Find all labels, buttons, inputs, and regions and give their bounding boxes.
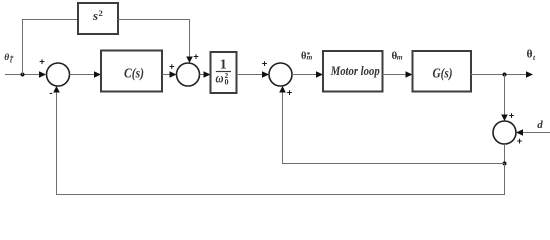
block Motor loop — [323, 51, 383, 92]
wire summer 1 to C(s) — [70, 71, 102, 78]
wire tap to s^2 block — [23, 20, 79, 75]
svg-text:0: 0 — [225, 78, 229, 87]
label theta_m — [392, 50, 403, 62]
svg-text:+: + — [39, 57, 45, 68]
label theta_m* — [301, 50, 313, 62]
node feedback junction — [503, 162, 507, 166]
svg-text:Motor loop: Motor loop — [330, 64, 380, 78]
wire outer feedback to summer 1 — [53, 86, 504, 195]
svg-text:+: + — [509, 111, 515, 122]
svg-text:s: s — [92, 8, 98, 23]
summing junction 1 — [47, 63, 70, 86]
svg-text:m: m — [397, 53, 403, 62]
svg-text:-: - — [49, 88, 52, 99]
wire Motor loop to G(s) — [383, 71, 413, 78]
svg-text:d: d — [537, 119, 543, 131]
wire inner feedback to summer 3 — [279, 86, 504, 164]
wire s^2 to summer 2 — [118, 20, 193, 64]
wire summer 4 output down — [504, 144, 506, 164]
svg-text:+: + — [287, 88, 293, 99]
svg-text:θ: θ — [4, 53, 9, 63]
label theta_t* input — [4, 53, 14, 64]
block s^2 — [78, 3, 118, 34]
svg-text:+: + — [193, 52, 199, 63]
wire 1/w0^2 block to summer 3 — [237, 71, 270, 78]
svg-text:θ: θ — [527, 49, 533, 61]
wire summer 2 to 1/w0^2 block — [200, 71, 211, 78]
svg-text:+: + — [517, 136, 523, 147]
block G(s) — [413, 51, 472, 92]
svg-text:+: + — [169, 62, 175, 73]
label theta_t output — [527, 49, 537, 62]
wire C(s) to summer 2 — [162, 71, 177, 78]
wire summer 3 to Motor loop — [292, 71, 323, 78]
svg-text:G(s): G(s) — [433, 66, 453, 81]
svg-text:ω: ω — [216, 72, 224, 87]
wire branch down to summer 4 — [501, 75, 508, 122]
block C(s) — [101, 51, 162, 92]
wire input theta_t* — [5, 71, 46, 78]
summing junction 2 — [177, 63, 200, 86]
svg-text:+: + — [262, 59, 268, 70]
summing junction 3 — [269, 63, 292, 86]
svg-text:t: t — [533, 53, 536, 62]
svg-text:2: 2 — [99, 8, 103, 18]
svg-text:m: m — [307, 53, 313, 62]
svg-text:C(s): C(s) — [124, 67, 144, 82]
node output branch — [503, 73, 507, 77]
wire disturbance d input — [516, 129, 550, 136]
node input tap — [21, 73, 25, 77]
summing junction 4 — [493, 121, 516, 144]
wire G(s) to output theta_t — [471, 71, 533, 78]
block 1/w0^2 — [211, 52, 237, 93]
